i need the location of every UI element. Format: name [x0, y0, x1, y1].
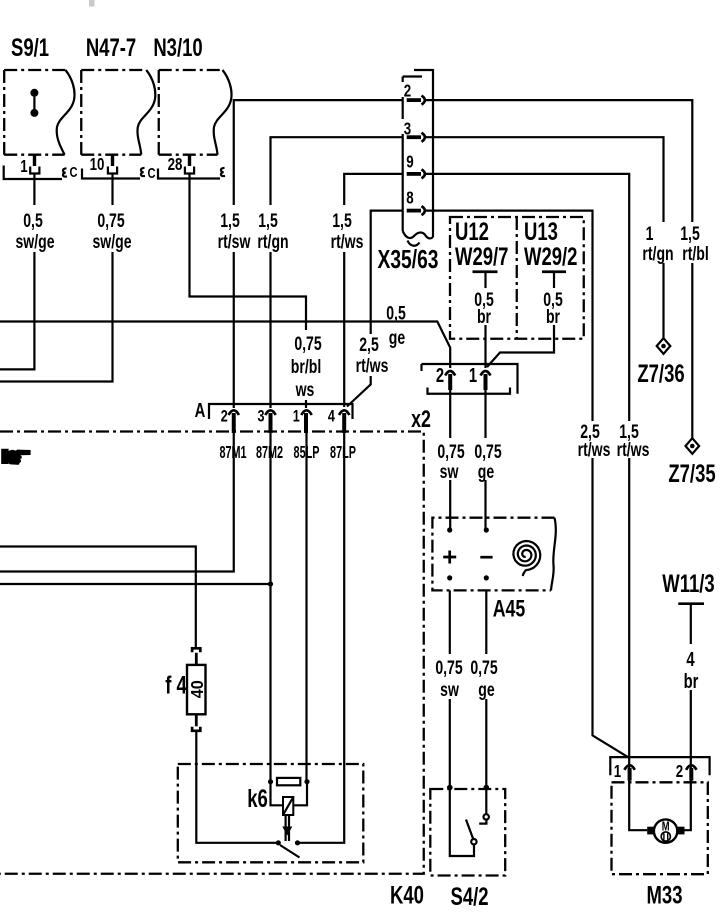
- svg-text:M33: M33: [647, 881, 683, 909]
- label 0,75 sw/ge: [92, 205, 131, 253]
- svg-text:br: br: [546, 306, 560, 328]
- label 0,5 br (U13): [541, 288, 567, 328]
- label X35/63: [378, 244, 439, 274]
- svg-text:sw/ge: sw/ge: [92, 231, 131, 253]
- svg-text:rt/ws: rt/ws: [356, 355, 389, 377]
- connector X35/63 body: [403, 70, 433, 246]
- label 1 rt/gn: [640, 222, 677, 265]
- svg-text:S9/1: S9/1: [11, 33, 49, 61]
- terminal labels 87M1 87M2 85LP 87LP: [219, 444, 356, 463]
- connector sleeve Z7/36: [637, 338, 684, 387]
- wire supply feed to fuse f4: [0, 547, 196, 648]
- pin 3 of strip A (87M2): [258, 407, 276, 433]
- svg-text:C: C: [69, 163, 77, 180]
- svg-text:k6: k6: [247, 784, 268, 812]
- pin 2 of X35/63: [401, 82, 425, 105]
- svg-text:rt/ws: rt/ws: [617, 439, 650, 461]
- stray mark top edge: [89, 0, 95, 7]
- svg-text:1,5: 1,5: [220, 210, 240, 232]
- svg-text:1,5: 1,5: [258, 210, 278, 232]
- pin 1 of x2: [469, 364, 491, 390]
- pin 2 of strip A (87M1): [221, 407, 239, 433]
- svg-text:sw: sw: [440, 679, 460, 701]
- wire 87M2 down to k6 coil: [269, 433, 271, 782]
- clockspring spiral inside A45: [513, 541, 540, 576]
- pin 1 of strip A (85LP): [293, 407, 312, 433]
- svg-text:1: 1: [469, 364, 477, 387]
- svg-text:2,5: 2,5: [359, 334, 379, 356]
- svg-text:rt/gn: rt/gn: [642, 243, 673, 265]
- svg-text:Z7/36: Z7/36: [637, 359, 684, 387]
- junction dot 87M2: [268, 581, 273, 586]
- component A45: [432, 518, 555, 622]
- label 0,5 br (U12): [472, 288, 498, 328]
- svg-text:A45: A45: [493, 596, 526, 622]
- svg-text:3: 3: [258, 407, 265, 426]
- svg-text:2: 2: [436, 364, 444, 387]
- label 0,5 ge: [386, 302, 406, 348]
- svg-text:br/bl: br/bl: [291, 356, 321, 378]
- component box U12/U13: [450, 217, 584, 339]
- label 0,75 sw (lower): [434, 654, 464, 701]
- label 1,5 rt/sw: [218, 205, 252, 253]
- bracket C under S9/1: [4, 163, 78, 180]
- wire pin8-right to M33 pin 1 diagonal (2,5 rt/ws): [426, 211, 628, 757]
- svg-text:K40: K40: [390, 881, 424, 909]
- relay k6 switch contact: [276, 840, 300, 857]
- relay k6 box: [178, 764, 363, 862]
- label 0,75 br/bl ws: [288, 330, 325, 401]
- svg-text:Z7/35: Z7/35: [668, 459, 715, 487]
- component S9/1: [4, 33, 74, 154]
- svg-text:f 4: f 4: [165, 671, 187, 699]
- component box S4/2: [430, 789, 505, 911]
- pin 9 of X35/63: [404, 153, 425, 179]
- svg-text:1,5: 1,5: [332, 210, 352, 232]
- svg-text:2: 2: [676, 762, 684, 781]
- label 0,5 sw/ge: [15, 205, 54, 253]
- pin 2 of x2: [436, 364, 455, 390]
- svg-text:x2: x2: [411, 407, 431, 433]
- pin 10 of N47-7: [90, 154, 118, 175]
- wire 0,5 ge into x2 pin 2: [0, 322, 450, 369]
- fuse f4: [165, 648, 207, 731]
- svg-text:C: C: [147, 164, 155, 181]
- pin 1 of M33: [614, 762, 635, 781]
- connector strip A: [195, 399, 353, 422]
- svg-text:rt/ws: rt/ws: [331, 231, 364, 253]
- wire pin3-left to A pin 3 (1,5 rt/gn): [271, 137, 403, 408]
- wire 0,75 sw/ge from N47-7 pin 10: [0, 174, 113, 382]
- wire pin2-right to Z7/35 (1,5 rt/bl): [426, 100, 692, 438]
- svg-text:1: 1: [293, 407, 300, 426]
- svg-text:X35/63: X35/63: [378, 244, 439, 274]
- label 1,5 rt/bl: [679, 222, 714, 265]
- relay k6 coil: [271, 782, 308, 815]
- svg-text:sw: sw: [440, 461, 460, 483]
- svg-text:1: 1: [614, 762, 622, 781]
- wire U13 0,5 br to x2 pin 1: [487, 286, 554, 367]
- hand pointer icon: [1, 449, 30, 465]
- M33 connector housing: [610, 757, 709, 775]
- svg-text:40: 40: [187, 680, 207, 698]
- wire x2 pin1 to A45 (0,75 ge): [484, 390, 486, 530]
- pin 28 of N3/10: [168, 154, 195, 175]
- wire 0,75 br/bl ws from N3/10 pin 28 to A pin 1: [190, 174, 307, 409]
- svg-text:0,75: 0,75: [435, 657, 462, 679]
- svg-text:0,75: 0,75: [474, 441, 501, 463]
- wire x2 pin2 to A45 (0,75 sw): [449, 390, 451, 530]
- pin 2 of M33: [676, 762, 697, 781]
- wire U12 0,5 br to x2 pin 1: [484, 286, 486, 368]
- svg-text:sw/ge: sw/ge: [15, 231, 54, 253]
- svg-text:N47-7: N47-7: [86, 33, 136, 61]
- svg-text:2: 2: [221, 407, 228, 426]
- svg-text:rt/bl: rt/bl: [682, 243, 709, 265]
- connector sleeve Z7/35: [668, 438, 715, 487]
- svg-text:2: 2: [404, 82, 412, 101]
- pin 1 of S9/1: [20, 154, 39, 177]
- svg-text:1,5: 1,5: [680, 223, 700, 245]
- S4/2 switch contacts: [466, 814, 489, 844]
- component box M33: [612, 782, 708, 909]
- label 0,75 sw (upper): [436, 438, 466, 483]
- label 2,5 rt/ws: [356, 334, 389, 377]
- svg-text:4: 4: [686, 648, 694, 671]
- wire 87LP down to k6 switch: [298, 433, 345, 843]
- pin 3 of X35/63: [401, 119, 425, 142]
- svg-text:0,75: 0,75: [470, 657, 497, 679]
- ground point W11/3: [662, 569, 714, 603]
- wire fuse f4 to k6 switch: [196, 731, 278, 843]
- pin 8 of X35/63: [404, 189, 425, 215]
- svg-text:28: 28: [168, 155, 183, 174]
- bracket under N3/10: [158, 168, 225, 179]
- connector x2: [411, 364, 517, 433]
- wire pin8-left to A pin 4 diagonal (2,5 rt/ws): [347, 211, 403, 407]
- bracket C under N47-7: [82, 164, 156, 181]
- component N47-7: [81, 33, 155, 154]
- svg-text:A: A: [195, 399, 206, 422]
- relay k6 actuator arrow: [282, 815, 292, 841]
- label 2,5 rt/ws (right): [577, 421, 613, 461]
- relay k6 resistor: [268, 778, 310, 785]
- label 1,5 rt/gn: [256, 205, 289, 253]
- label 1,5 rt/ws (right): [615, 421, 651, 461]
- svg-text:8: 8: [406, 189, 414, 208]
- svg-text:S4/2: S4/2: [450, 882, 488, 910]
- svg-text:10: 10: [90, 155, 105, 174]
- module box K40: [0, 432, 424, 910]
- svg-text:ge: ge: [478, 679, 494, 701]
- svg-text:0,75: 0,75: [294, 333, 321, 355]
- S4/2 terminal dots: [447, 785, 489, 791]
- svg-text:ge: ge: [478, 461, 494, 483]
- wire pin9-right to M33 pin 1 (1,5 rt/ws): [426, 174, 647, 830]
- svg-text:ws: ws: [295, 379, 315, 401]
- ground symbol W29/7 (U12): [473, 272, 498, 286]
- svg-text:1: 1: [20, 157, 28, 176]
- svg-text:rt/sw: rt/sw: [218, 231, 252, 253]
- svg-text:br: br: [477, 306, 491, 328]
- svg-text:0,75: 0,75: [437, 441, 464, 463]
- pin 4 of strip A (87LP): [328, 407, 349, 433]
- wire A45 to S4/2 (0,75 ge): [485, 590, 487, 814]
- svg-text:W29/2: W29/2: [524, 242, 577, 270]
- wire 87M1 out left: [0, 433, 234, 572]
- wire pin3-right to Z7/36 (1 rt/gn): [426, 137, 664, 338]
- wire pin9-left to A pin 4 (1,5 rt/ws): [344, 174, 403, 407]
- label 0,75 ge (upper): [473, 438, 503, 483]
- svg-text:ge: ge: [389, 327, 405, 349]
- svg-text:W11/3: W11/3: [662, 569, 714, 597]
- svg-text:W29/7: W29/7: [455, 242, 508, 270]
- ground symbol W29/2 (U13): [542, 272, 566, 286]
- svg-text:9: 9: [406, 153, 414, 172]
- wire 0,5 sw/ge from S9/1 pin 1: [0, 174, 34, 370]
- svg-text:N3/10: N3/10: [153, 33, 202, 61]
- wire pin2-left to A pin 2 (1,5 rt/sw): [234, 100, 403, 408]
- svg-text:0,5: 0,5: [386, 302, 406, 324]
- svg-text:1: 1: [646, 223, 654, 245]
- svg-text:0,5: 0,5: [23, 210, 43, 232]
- svg-text:4: 4: [328, 407, 336, 426]
- svg-text:br: br: [684, 670, 699, 693]
- label 0,75 ge (lower): [470, 654, 500, 701]
- wire 85LP down to k6 coil: [305, 433, 307, 782]
- label 1,5 rt/ws: [330, 205, 363, 253]
- svg-text:0,75: 0,75: [97, 210, 124, 232]
- svg-text:rt/ws: rt/ws: [578, 439, 611, 461]
- motor M33 symbol: [647, 819, 684, 842]
- component N3/10: [153, 33, 231, 154]
- wire A45 to S4/2 (0,75 sw): [450, 590, 474, 856]
- label 4 br: [682, 644, 700, 693]
- wire W11/3 to M33 pin 2 (4 br): [678, 604, 691, 831]
- wire 87M2 branch out left: [0, 583, 271, 585]
- svg-text:rt/gn: rt/gn: [257, 231, 288, 253]
